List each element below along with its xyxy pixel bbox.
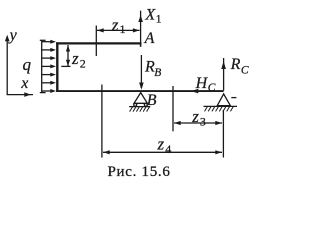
wall member (vertical bar) bbox=[56, 42, 58, 92]
stub below beam end at A bbox=[140, 44, 142, 47]
y-axis bbox=[5, 35, 10, 95]
svg-text:x: x bbox=[20, 75, 28, 92]
svg-text:Рис. 15.6: Рис. 15.6 bbox=[108, 164, 171, 180]
force X1 arrow bbox=[138, 11, 143, 44]
svg-text:H: H bbox=[195, 75, 209, 92]
svg-text:q: q bbox=[23, 55, 32, 74]
svg-text:B: B bbox=[147, 92, 157, 109]
svg-text:3: 3 bbox=[200, 115, 206, 129]
support B hatching bbox=[130, 107, 150, 112]
svg-text:z: z bbox=[71, 49, 79, 68]
svg-text:z: z bbox=[157, 134, 165, 153]
support B ground line bbox=[129, 106, 150, 108]
load arrow 7 bbox=[42, 89, 56, 93]
svg-text:C: C bbox=[208, 82, 216, 94]
support C ground line bbox=[204, 105, 238, 107]
svg-text:B: B bbox=[154, 67, 161, 79]
dimension z4 left extension line bbox=[101, 85, 103, 158]
svg-text:1: 1 bbox=[120, 22, 126, 36]
force RC arrow bbox=[221, 58, 226, 91]
load arrow 3 bbox=[42, 56, 56, 60]
load arrow 4 bbox=[42, 64, 56, 68]
x-axis bbox=[7, 92, 33, 97]
svg-text:z: z bbox=[111, 15, 119, 34]
support C triangle bbox=[217, 94, 230, 106]
load arrow 6 bbox=[42, 81, 56, 85]
dimension z1 bbox=[97, 28, 140, 32]
support C hatching bbox=[205, 106, 234, 111]
dimension z3 left extension line bbox=[172, 86, 174, 131]
main beam member bbox=[56, 90, 224, 92]
svg-text:z: z bbox=[191, 107, 199, 126]
svg-text:y: y bbox=[8, 27, 18, 44]
load arrow 5 bbox=[42, 73, 56, 77]
dimension z1 extension line bbox=[95, 26, 97, 57]
support B roller circles bbox=[134, 103, 137, 106]
svg-text:X: X bbox=[144, 7, 156, 24]
svg-text:1: 1 bbox=[156, 14, 162, 26]
svg-text:4: 4 bbox=[165, 142, 171, 156]
load arrow 2 bbox=[42, 48, 56, 52]
svg-text:C: C bbox=[241, 64, 249, 76]
load arrow 1 bbox=[42, 40, 56, 44]
top beam member bbox=[56, 42, 141, 44]
force HC arrow bbox=[191, 89, 223, 94]
dash right of support C bbox=[231, 97, 236, 99]
svg-text:A: A bbox=[144, 30, 155, 47]
support B triangle bbox=[134, 93, 147, 104]
svg-text:2: 2 bbox=[80, 56, 86, 70]
dimension z4 bbox=[103, 150, 222, 154]
force RB arrow bbox=[139, 55, 144, 90]
svg-text:R: R bbox=[230, 56, 241, 73]
dimension z3 bbox=[174, 121, 222, 125]
dimension right extension line at C bbox=[222, 110, 224, 158]
distributed load q baseline bbox=[40, 40, 46, 92]
dimension z2 bbox=[61, 45, 70, 66]
